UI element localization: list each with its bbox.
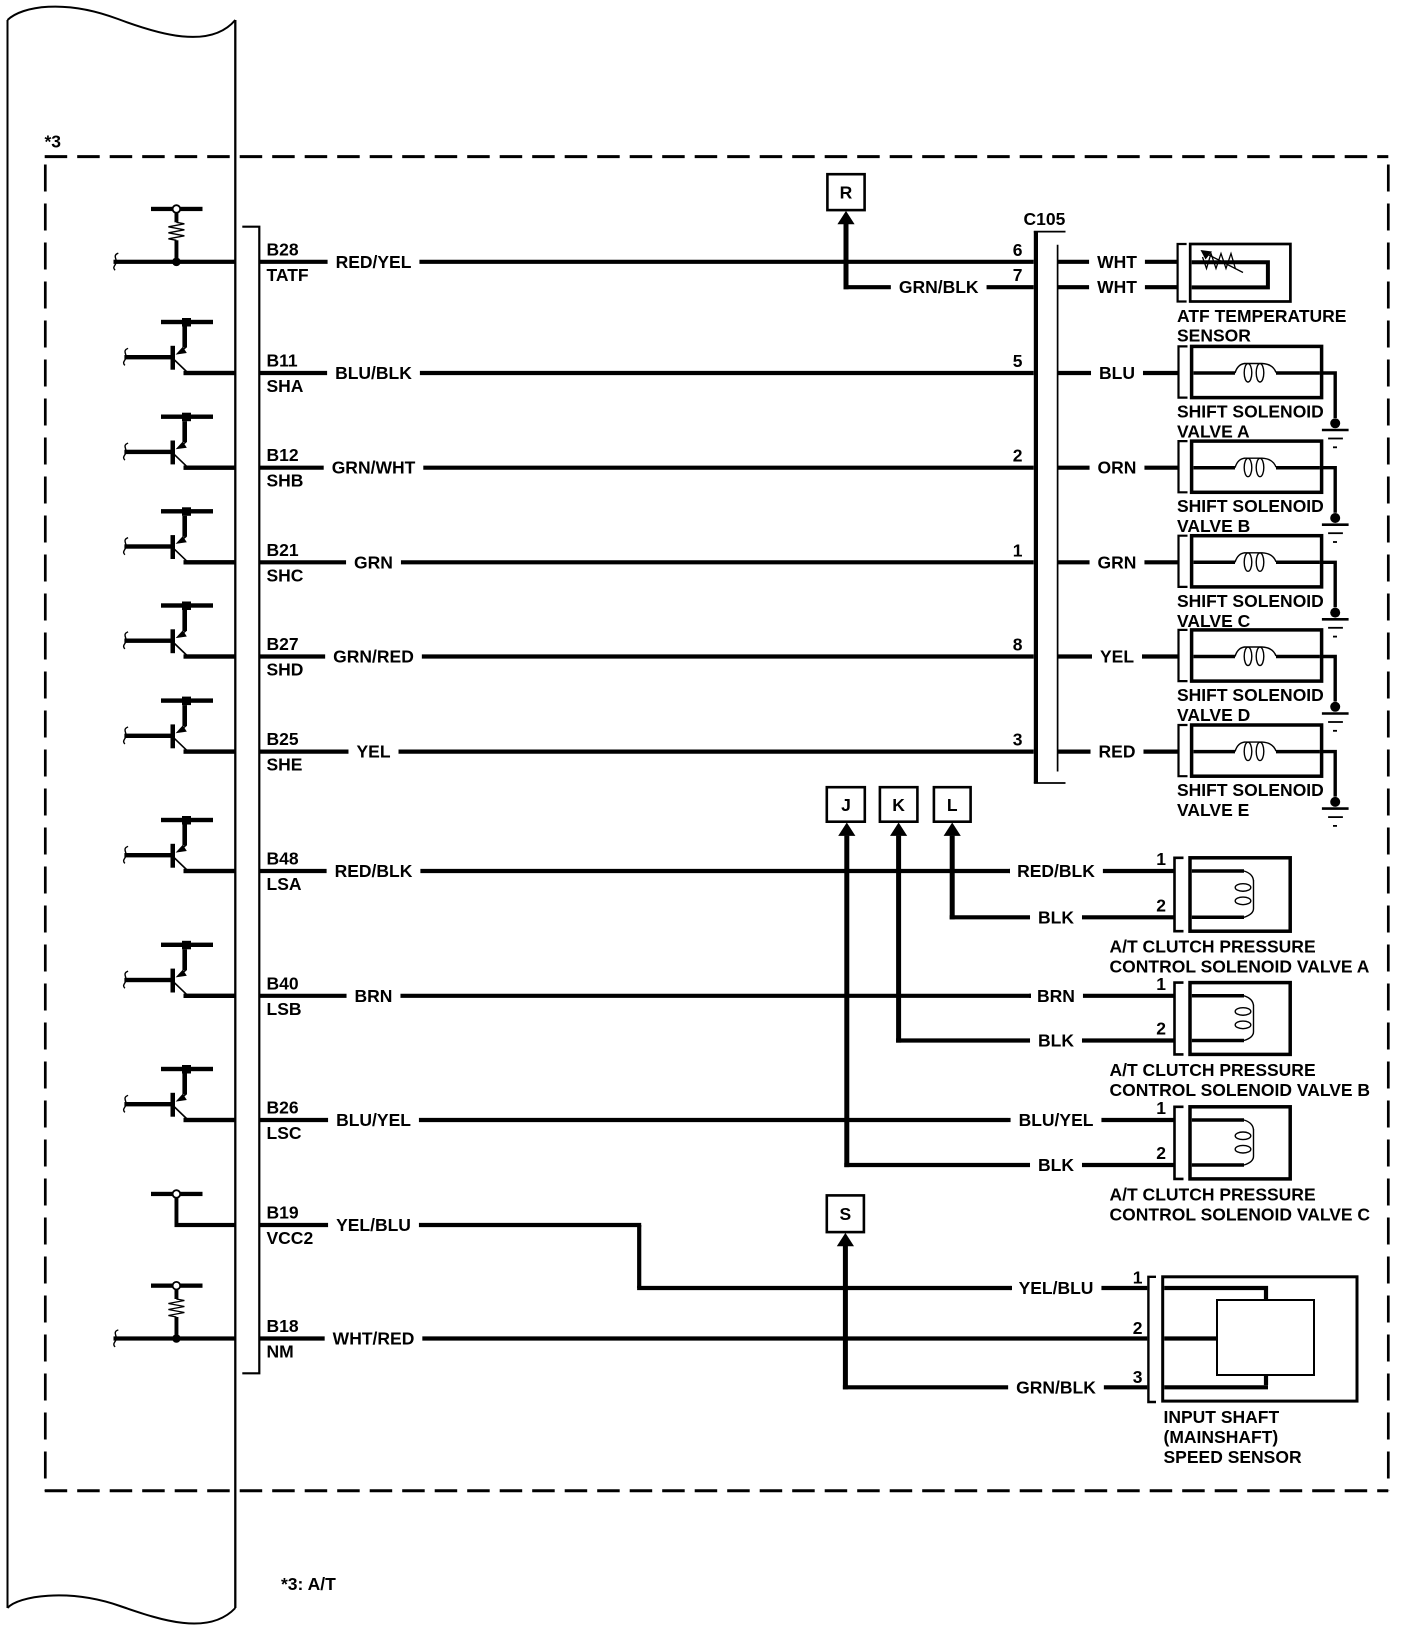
wire RED/YEL from pin B28	[259, 260, 327, 264]
wire BLU/YEL mid segment	[1008, 1118, 1011, 1122]
arrow up into J	[838, 823, 855, 836]
wire BLU from C105 pin 5	[1058, 371, 1091, 375]
wire BRN mid segment	[1029, 994, 1031, 998]
wire GRN from C105 pin 1	[1058, 560, 1090, 564]
connector bracket clutch valve C	[1175, 1107, 1184, 1179]
arrow up into K	[890, 823, 907, 836]
svg-text:SHE: SHE	[267, 755, 303, 775]
shift solenoid valve C box	[1192, 536, 1322, 587]
R arrow shaft wire	[844, 224, 849, 289]
svg-text:2: 2	[1133, 1318, 1143, 1338]
svg-text:YEL/BLU: YEL/BLU	[1019, 1278, 1094, 1298]
svg-text:C105: C105	[1024, 209, 1066, 229]
wire GRN/BLK to pin 7	[844, 285, 891, 289]
svg-text:2: 2	[1156, 895, 1166, 915]
ECU torn strip bottom wavy edge	[8, 1595, 236, 1623]
svg-text:SENSOR: SENSOR	[1177, 326, 1251, 346]
svg-text:CONTROL SOLENOID VALVE A: CONTROL SOLENOID VALVE A	[1110, 957, 1370, 977]
svg-text:A/T CLUTCH PRESSURE: A/T CLUTCH PRESSURE	[1110, 1060, 1316, 1080]
svg-text:YEL: YEL	[356, 742, 390, 762]
svg-text:RED/BLK: RED/BLK	[1017, 861, 1095, 881]
svg-text:B48: B48	[267, 849, 299, 869]
svg-text:8: 8	[1013, 635, 1023, 655]
svg-text:SHIFT SOLENOID: SHIFT SOLENOID	[1177, 780, 1324, 800]
wire YEL from C105 pin 8	[1058, 654, 1092, 658]
svg-text:SHIFT SOLENOID: SHIFT SOLENOID	[1177, 591, 1324, 611]
svg-text:GRN/BLK: GRN/BLK	[899, 277, 979, 297]
ground symbol valve A	[1330, 418, 1340, 428]
driver transistor for pin B48	[161, 818, 213, 822]
arrow up into R	[837, 211, 854, 224]
wire YEL from pin B25	[259, 749, 348, 753]
ground symbol valve D	[1330, 702, 1340, 712]
solenoid coil D	[1194, 655, 1236, 659]
svg-text:S: S	[840, 1204, 852, 1224]
arrow up into L	[944, 823, 961, 836]
wire GRN/BLK to sensor pin 3	[843, 1385, 1008, 1389]
svg-text:SPEED SENSOR: SPEED SENSOR	[1164, 1447, 1302, 1467]
sensor inner trace pin2	[1164, 1336, 1218, 1340]
svg-text:SHD: SHD	[267, 660, 304, 680]
svg-text:B18: B18	[267, 1316, 299, 1336]
J shaft wire	[844, 836, 849, 1168]
svg-text:ORN: ORN	[1098, 458, 1137, 478]
wire YEL/BLU to sensor pin 1	[1008, 1286, 1013, 1290]
wire YEL/BLU jog down	[637, 1225, 641, 1288]
connector C105 body	[1034, 231, 1038, 783]
svg-text:J: J	[841, 795, 851, 815]
svg-text:SHA: SHA	[267, 376, 304, 396]
svg-text:SHC: SHC	[267, 565, 304, 585]
svg-text:5: 5	[1013, 351, 1023, 371]
svg-text:GRN: GRN	[354, 552, 393, 572]
svg-text:VALVE B: VALVE B	[1177, 516, 1250, 536]
svg-text:RED: RED	[1099, 742, 1136, 762]
ground wire valve E	[1322, 752, 1336, 797]
wire RED/BLK mid segment	[1007, 869, 1012, 873]
svg-text:GRN: GRN	[1098, 552, 1137, 572]
svg-text:VALVE E: VALVE E	[1177, 800, 1249, 820]
svg-text:TATF: TATF	[267, 265, 309, 285]
wire BRN from pin B40	[259, 994, 346, 998]
wire BLK from K	[896, 1038, 1030, 1042]
A/T clutch pressure control solenoid valve C box	[1190, 1107, 1290, 1179]
A/T clutch pressure control solenoid valve A box	[1190, 858, 1290, 931]
svg-text:GRN/WHT: GRN/WHT	[332, 458, 416, 478]
dashed A/T border box	[45, 155, 1389, 158]
wire BLU/BLK from pin B11	[259, 371, 327, 375]
connector bracket speed sensor	[1148, 1277, 1156, 1402]
wire YEL/BLU from pin B19	[259, 1223, 328, 1227]
clutch coil C	[1192, 1118, 1244, 1122]
solenoid coil B	[1194, 466, 1236, 470]
connector K box	[880, 787, 918, 822]
connector R box	[827, 174, 864, 210]
wire RED from C105 pin 3	[1058, 749, 1091, 753]
svg-text:B28: B28	[267, 239, 299, 259]
driver transistor for pin B12	[161, 415, 213, 419]
svg-text:VALVE A: VALVE A	[1177, 422, 1250, 442]
pull-up resistor for pin B28	[151, 207, 203, 211]
svg-text:K: K	[892, 795, 905, 815]
clutch coil B	[1192, 994, 1244, 998]
thermistor arrow	[1208, 255, 1243, 273]
svg-text:2: 2	[1013, 446, 1023, 466]
svg-text:A/T CLUTCH PRESSURE: A/T CLUTCH PRESSURE	[1110, 937, 1316, 957]
solenoid coil C	[1194, 561, 1236, 565]
svg-text:YEL/BLU: YEL/BLU	[336, 1215, 411, 1235]
svg-text:1: 1	[1133, 1268, 1143, 1288]
wire RED/BLK from pin B48	[259, 869, 326, 873]
svg-text:RED/BLK: RED/BLK	[335, 861, 413, 881]
ground symbol valve B	[1330, 513, 1340, 523]
svg-text:*3: A/T: *3: A/T	[281, 1574, 336, 1594]
connector bracket shift solenoid valve E	[1179, 725, 1188, 776]
svg-text:BLU/YEL: BLU/YEL	[1019, 1110, 1094, 1130]
svg-text:VALVE D: VALVE D	[1177, 705, 1250, 725]
svg-text:CONTROL SOLENOID VALVE B: CONTROL SOLENOID VALVE B	[1110, 1080, 1371, 1100]
shift solenoid valve E box	[1192, 725, 1322, 776]
driver transistor for pin B40	[161, 943, 213, 947]
ground wire valve C	[1322, 562, 1336, 607]
S shaft wire	[843, 1246, 848, 1389]
wire GRN from pin B21	[259, 560, 346, 564]
svg-text:2: 2	[1156, 1019, 1166, 1039]
svg-text:BLK: BLK	[1038, 907, 1074, 927]
ground wire valve B	[1322, 468, 1336, 513]
svg-text:1: 1	[1156, 1098, 1166, 1118]
svg-text:BLK: BLK	[1038, 1031, 1074, 1051]
shift solenoid valve B box	[1192, 441, 1322, 492]
wire WHT from C105 pin 7	[1058, 285, 1089, 289]
svg-text:GRN/BLK: GRN/BLK	[1016, 1377, 1096, 1397]
svg-text:SHIFT SOLENOID: SHIFT SOLENOID	[1177, 402, 1324, 422]
wire GRN/RED from pin B27	[259, 654, 325, 658]
svg-text:2: 2	[1156, 1143, 1166, 1163]
svg-text:B26: B26	[267, 1098, 299, 1118]
svg-text:A/T CLUTCH PRESSURE: A/T CLUTCH PRESSURE	[1110, 1184, 1316, 1204]
arrow up into S	[837, 1233, 854, 1246]
svg-text:BLU/BLK: BLU/BLK	[335, 363, 412, 383]
svg-text:SHB: SHB	[267, 471, 304, 491]
svg-text:WHT: WHT	[1097, 252, 1137, 272]
wire ORN from C105 pin 2	[1058, 466, 1090, 470]
svg-text:1: 1	[1156, 974, 1166, 994]
thermistor zigzag	[1203, 254, 1236, 270]
svg-text:LSC: LSC	[267, 1123, 302, 1143]
svg-text:WHT/RED: WHT/RED	[333, 1329, 415, 1349]
svg-text:BRN: BRN	[1037, 986, 1075, 1006]
connector J box	[827, 787, 865, 822]
clutch coil A	[1192, 869, 1244, 873]
connector bracket shift solenoid valve B	[1179, 441, 1188, 492]
wire WHT from C105 pin 6	[1058, 260, 1089, 264]
sensor inner white box	[1217, 1300, 1314, 1375]
ECU torn strip right edge	[234, 20, 236, 1608]
ground symbol valve E	[1330, 797, 1340, 807]
svg-text:1: 1	[1013, 540, 1023, 560]
ECU torn strip top wavy edge	[8, 7, 236, 37]
svg-text:1: 1	[1156, 849, 1166, 869]
connector S box	[827, 1195, 864, 1232]
wire BLK from L	[950, 915, 1030, 919]
VCC supply for pin B19	[151, 1192, 203, 1196]
connector bracket clutch valve A	[1175, 858, 1184, 931]
driver transistor for pin B11	[161, 320, 213, 324]
wire BLU/YEL from pin B26	[259, 1118, 328, 1122]
svg-text:WHT: WHT	[1097, 277, 1137, 297]
connector bracket shift solenoid valve A	[1179, 346, 1188, 397]
svg-text:B11: B11	[267, 351, 298, 371]
svg-text:*3: *3	[45, 132, 62, 152]
solenoid coil E	[1194, 750, 1236, 754]
wire BLK from J	[844, 1163, 1030, 1167]
svg-text:VCC2: VCC2	[267, 1228, 314, 1248]
svg-text:B40: B40	[267, 973, 299, 993]
ATF temperature sensor box	[1190, 244, 1290, 302]
svg-text:3: 3	[1013, 730, 1023, 750]
driver transistor for pin B27	[161, 603, 213, 607]
driver transistor for pin B26	[161, 1067, 213, 1071]
svg-text:B27: B27	[267, 634, 299, 654]
sensor inner trace pin3	[1164, 1385, 1268, 1389]
svg-text:SHIFT SOLENOID: SHIFT SOLENOID	[1177, 685, 1324, 705]
ground wire valve D	[1322, 657, 1336, 702]
input shaft speed sensor outer box	[1163, 1277, 1357, 1401]
svg-text:6: 6	[1013, 240, 1023, 260]
svg-text:BLU: BLU	[1099, 363, 1135, 383]
wire WHT/RED from pin B18	[259, 1336, 324, 1340]
svg-text:YEL: YEL	[1100, 647, 1134, 667]
svg-text:NM: NM	[267, 1342, 294, 1362]
solenoid coil A	[1194, 371, 1236, 375]
shift solenoid valve A box	[1192, 346, 1322, 397]
driver transistor for pin B25	[161, 698, 213, 702]
svg-text:CONTROL SOLENOID VALVE C: CONTROL SOLENOID VALVE C	[1110, 1204, 1371, 1224]
svg-text:LSA: LSA	[267, 874, 302, 894]
connector bracket shift solenoid valve D	[1179, 630, 1188, 681]
svg-text:BLU/YEL: BLU/YEL	[336, 1110, 411, 1130]
svg-text:SHIFT SOLENOID: SHIFT SOLENOID	[1177, 496, 1324, 516]
driver transistor for pin B21	[161, 509, 213, 513]
A/T clutch pressure control solenoid valve B box	[1190, 983, 1290, 1055]
svg-text:INPUT SHAFT: INPUT SHAFT	[1164, 1407, 1280, 1427]
svg-text:BLK: BLK	[1038, 1155, 1074, 1175]
ground symbol valve C	[1330, 608, 1340, 618]
svg-text:ATF TEMPERATURE: ATF TEMPERATURE	[1177, 306, 1346, 326]
shift solenoid valve D box	[1192, 630, 1322, 681]
svg-text:R: R	[840, 183, 853, 203]
svg-text:7: 7	[1013, 265, 1023, 285]
connector bracket clutch valve B	[1175, 983, 1184, 1055]
connector bracket ATF sensor	[1178, 244, 1187, 302]
svg-text:B21: B21	[267, 540, 299, 560]
svg-text:B12: B12	[267, 445, 299, 465]
svg-text:B25: B25	[267, 729, 299, 749]
pull-up resistor for pin B18	[151, 1284, 203, 1288]
ECU pin bracket	[242, 227, 259, 1374]
svg-text:RED/YEL: RED/YEL	[336, 252, 412, 272]
ATF sensor internal loop	[1192, 262, 1268, 287]
svg-text:L: L	[947, 795, 958, 815]
svg-text:(MAINSHAFT): (MAINSHAFT)	[1164, 1427, 1279, 1447]
svg-text:B19: B19	[267, 1203, 299, 1223]
connector L box	[934, 787, 971, 822]
connector bracket shift solenoid valve C	[1179, 536, 1188, 587]
sensor inner trace pin1	[1164, 1288, 1266, 1385]
ground wire valve A	[1322, 373, 1336, 418]
svg-text:GRN/RED: GRN/RED	[333, 647, 414, 667]
L shaft wire	[950, 836, 955, 920]
svg-text:BRN: BRN	[355, 986, 393, 1006]
svg-text:3: 3	[1133, 1367, 1143, 1387]
K shaft wire	[896, 836, 901, 1043]
svg-text:VALVE C: VALVE C	[1177, 611, 1251, 631]
wire GRN/WHT from pin B12	[259, 466, 323, 470]
svg-text:LSB: LSB	[267, 999, 302, 1019]
ECU torn strip left edge	[7, 20, 9, 1608]
